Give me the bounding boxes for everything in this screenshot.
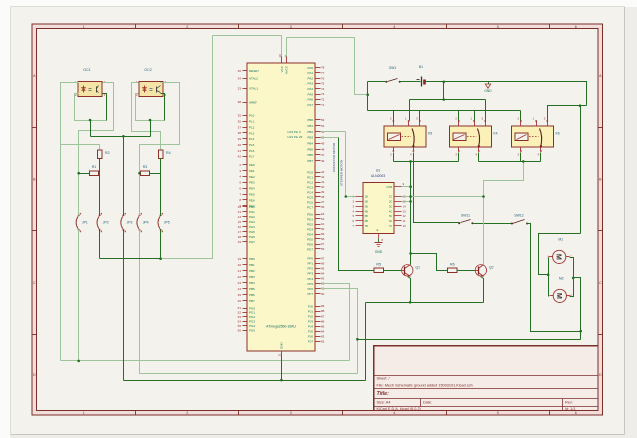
svg-text:XTAL2: XTAL2 xyxy=(249,77,258,81)
svg-text:PG3: PG3 xyxy=(249,320,255,324)
wire ULN outputs xyxy=(402,196,484,198)
svg-text:PL3: PL3 xyxy=(249,131,255,135)
svg-text:55: 55 xyxy=(238,324,242,328)
svg-text:R2: R2 xyxy=(105,151,110,155)
svg-text:22: 22 xyxy=(238,275,242,279)
svg-text:6B: 6B xyxy=(365,219,368,223)
svg-text:PA3: PA3 xyxy=(308,82,314,86)
svg-text:PG4: PG4 xyxy=(249,324,255,328)
svg-text:PC5: PC5 xyxy=(307,195,313,199)
transistor Q1 xyxy=(402,265,421,277)
svg-text:71: 71 xyxy=(321,103,325,107)
svg-text:ULN2003: ULN2003 xyxy=(371,174,385,178)
svg-text:40: 40 xyxy=(238,143,242,147)
IC U2 left pins RESET XTAL AREF xyxy=(238,69,260,105)
svg-text:6: 6 xyxy=(575,411,577,415)
svg-text:25: 25 xyxy=(238,293,242,297)
svg-text:35: 35 xyxy=(238,114,242,118)
wire bus1 bottom xyxy=(61,360,350,362)
wire VCC rail to IC VCC pin xyxy=(213,36,282,57)
IC U1 pins xyxy=(352,182,406,242)
wire JP1 bottom to bus1 xyxy=(78,230,80,361)
svg-text:51: 51 xyxy=(238,306,242,310)
svg-text:41: 41 xyxy=(238,149,242,153)
svg-text:37: 37 xyxy=(238,125,242,129)
svg-text:4C: 4C xyxy=(389,209,392,213)
svg-text:18: 18 xyxy=(238,235,242,239)
wire Q1 collector stub xyxy=(410,254,412,265)
svg-text:PE4: PE4 xyxy=(249,187,255,191)
svg-text:33: 33 xyxy=(238,87,242,91)
svg-text:JP2: JP2 xyxy=(103,221,109,225)
wire bus3 ground xyxy=(124,380,366,382)
svg-text:PC3: PC3 xyxy=(307,185,313,189)
svg-text:7B: 7B xyxy=(365,224,368,228)
svg-text:12: 12 xyxy=(403,214,407,218)
svg-text:LN3 Pin 29: LN3 Pin 29 xyxy=(288,135,303,139)
relay K5 xyxy=(384,117,432,157)
svg-text:R6: R6 xyxy=(450,262,455,266)
svg-text:13: 13 xyxy=(238,210,242,214)
svg-text:PL5: PL5 xyxy=(249,143,255,147)
svg-text:PD3: PD3 xyxy=(307,227,313,231)
svg-text:94: 94 xyxy=(321,272,325,276)
svg-text:13: 13 xyxy=(403,209,407,213)
svg-text:PB3: PB3 xyxy=(307,136,313,140)
svg-text:76: 76 xyxy=(321,76,325,80)
svg-text:3: 3 xyxy=(290,411,292,415)
svg-text:XTAL1: XTAL1 xyxy=(249,87,258,91)
svg-text:52: 52 xyxy=(238,311,242,315)
battery B1 xyxy=(417,65,430,87)
switch JP3 xyxy=(121,213,133,232)
svg-text:COM: COM xyxy=(386,185,392,189)
wire opto center H xyxy=(90,121,92,137)
svg-text:PF5: PF5 xyxy=(307,282,313,286)
resistor R5 xyxy=(374,262,383,272)
svg-text:38: 38 xyxy=(321,195,325,199)
svg-text:PL4: PL4 xyxy=(249,137,255,141)
IC U2 right pin group PB0-PB7 xyxy=(307,118,324,163)
svg-text:10: 10 xyxy=(403,224,407,228)
svg-text:16: 16 xyxy=(238,225,242,229)
svg-text:LN3 Pin 6: LN3 Pin 6 xyxy=(288,130,302,134)
ground below U1 xyxy=(375,239,383,254)
svg-text:49: 49 xyxy=(321,141,325,145)
wire OC1 pin3 xyxy=(103,94,107,121)
svg-text:PH2: PH2 xyxy=(249,215,255,219)
svg-text:62: 62 xyxy=(321,217,325,221)
svg-text:5B: 5B xyxy=(365,214,368,218)
svg-text:PL0: PL0 xyxy=(249,114,255,118)
svg-text:PB7: PB7 xyxy=(307,159,313,163)
wire JP3 bottom to bus3 xyxy=(123,230,125,381)
svg-text:OC1: OC1 xyxy=(83,68,90,72)
IC U2 right pin group PC0-PC7 xyxy=(307,170,325,209)
svg-text:Date:: Date: xyxy=(423,401,432,405)
svg-text:Q1: Q1 xyxy=(416,265,421,269)
svg-text:PE2: PE2 xyxy=(249,175,255,179)
svg-text:7C: 7C xyxy=(389,224,392,228)
svg-text:PB1: PB1 xyxy=(249,263,255,267)
svg-text:PG1: PG1 xyxy=(249,311,255,315)
switch SW12 xyxy=(511,213,528,224)
wire relay1 contact to SW11 xyxy=(414,162,460,223)
IC U2 left pin group PE0-PE7 xyxy=(239,163,255,208)
svg-text:PJ4: PJ4 xyxy=(308,324,314,328)
svg-text:Size: A4: Size: A4 xyxy=(377,401,391,405)
IC U2 ATmega2560 body xyxy=(247,63,315,351)
wire OC2 pin3 xyxy=(161,94,165,121)
svg-text:PF3: PF3 xyxy=(307,272,313,276)
svg-text:PE5: PE5 xyxy=(249,192,255,196)
svg-text:PD2: PD2 xyxy=(307,222,313,226)
svg-text:PH0: PH0 xyxy=(249,205,255,209)
switch SW1 xyxy=(385,66,400,83)
wire SW12 down and across xyxy=(527,224,581,332)
svg-text:53: 53 xyxy=(238,315,242,319)
IC U2 right pin group PD0-PD7 xyxy=(307,212,325,251)
svg-text:39: 39 xyxy=(238,137,242,141)
wire relay coil rail xyxy=(368,110,521,112)
svg-text:PD1: PD1 xyxy=(307,217,313,221)
wire IC GND pin to bus3 xyxy=(281,357,283,381)
wire R1 row xyxy=(79,173,90,175)
svg-text:PJ1: PJ1 xyxy=(308,309,314,313)
svg-text:19: 19 xyxy=(238,257,242,261)
optocoupler OC1 xyxy=(75,68,106,97)
svg-text:B1: B1 xyxy=(419,65,423,69)
svg-text:PH7: PH7 xyxy=(249,240,255,244)
svg-text:PC0: PC0 xyxy=(307,170,313,174)
svg-text:PE1: PE1 xyxy=(249,169,255,173)
svg-text:86: 86 xyxy=(321,319,325,323)
svg-text:PH6: PH6 xyxy=(249,235,255,239)
svg-text:24: 24 xyxy=(238,287,242,291)
wire OC2 pin1 to R4 top xyxy=(132,83,161,150)
svg-text:JP3: JP3 xyxy=(127,221,133,225)
svg-text:U1: U1 xyxy=(376,169,380,173)
wire R2 bottom to JP2 xyxy=(99,159,101,216)
wire motor right loop xyxy=(570,258,574,297)
svg-text:42: 42 xyxy=(238,155,242,159)
svg-text:STEPPER MOTOR: STEPPER MOTOR xyxy=(340,159,344,186)
wire R3 row xyxy=(140,173,141,175)
svg-text:D: D xyxy=(33,373,36,377)
svg-text:60: 60 xyxy=(321,227,325,231)
svg-text:PB0: PB0 xyxy=(249,257,255,261)
resistor R1 xyxy=(89,165,98,175)
switch JP4 xyxy=(137,213,149,232)
svg-text:R5: R5 xyxy=(376,262,381,266)
svg-text:46: 46 xyxy=(321,159,325,163)
svg-text:PB2: PB2 xyxy=(307,130,313,134)
svg-text:SW11: SW11 xyxy=(461,213,470,217)
svg-text:19: 19 xyxy=(238,240,242,244)
svg-text:D: D xyxy=(599,373,602,377)
wire OC1 pin2 loop xyxy=(75,94,107,121)
relay K6 xyxy=(512,117,560,157)
svg-text:PB5: PB5 xyxy=(249,287,255,291)
svg-text:SW12: SW12 xyxy=(514,213,523,217)
wire JP5 bottom to bus VCC xyxy=(160,230,162,259)
IC U2 right pin group PA0-PA7 xyxy=(308,66,325,107)
svg-text:PB2: PB2 xyxy=(249,269,255,273)
svg-text:63: 63 xyxy=(321,212,325,216)
svg-text:52: 52 xyxy=(321,124,325,128)
svg-text:34: 34 xyxy=(238,77,242,81)
svg-text:JP1: JP1 xyxy=(82,221,88,225)
svg-text:PA1: PA1 xyxy=(308,71,314,75)
wire OC1 pin4 down to JP1 column xyxy=(79,83,114,216)
svg-text:61: 61 xyxy=(321,222,325,226)
svg-text:58: 58 xyxy=(321,237,325,241)
svg-text:57: 57 xyxy=(321,242,325,246)
svg-text:82: 82 xyxy=(321,339,325,343)
svg-text:PL2: PL2 xyxy=(249,125,255,129)
svg-text:M1: M1 xyxy=(558,237,563,241)
svg-text:48: 48 xyxy=(321,147,325,151)
resistor R2 xyxy=(97,150,109,159)
svg-text:47: 47 xyxy=(321,153,325,157)
svg-text:PA6: PA6 xyxy=(308,98,314,102)
svg-text:26: 26 xyxy=(238,299,242,303)
svg-text:21: 21 xyxy=(238,269,242,273)
svg-text:PB4: PB4 xyxy=(307,142,313,146)
wire motor bus 339 xyxy=(358,339,581,341)
wire SW11 to SW12 xyxy=(473,223,512,225)
svg-text:M: M xyxy=(554,254,563,260)
svg-text:43: 43 xyxy=(321,170,325,174)
svg-text:CONVEYOR MOTOR: CONVEYOR MOTOR xyxy=(332,142,336,172)
optocoupler OC2 xyxy=(136,68,167,97)
svg-text:PE3: PE3 xyxy=(249,181,255,185)
wire rail to R2 top xyxy=(61,145,100,150)
svg-text:ATmega2560-16AU: ATmega2560-16AU xyxy=(266,325,296,329)
svg-text:PG2: PG2 xyxy=(249,315,255,319)
svg-text:59: 59 xyxy=(321,232,325,236)
svg-text:PL7: PL7 xyxy=(249,155,255,159)
svg-text:C: C xyxy=(33,281,36,285)
svg-text:90: 90 xyxy=(321,292,325,296)
svg-text:K4: K4 xyxy=(493,132,497,136)
svg-text:File: Mech Schematic ground ad: File: Mech Schematic ground added 150931… xyxy=(377,384,473,388)
svg-text:41: 41 xyxy=(321,180,325,184)
svg-text:1: 1 xyxy=(83,411,85,415)
svg-text:83: 83 xyxy=(321,334,325,338)
resistor R4 xyxy=(158,150,170,159)
svg-text:PD7: PD7 xyxy=(307,247,313,251)
wire OC2 pin4 down to JP4 column xyxy=(140,83,180,216)
svg-text:14: 14 xyxy=(238,215,242,219)
svg-text:36: 36 xyxy=(321,205,325,209)
IC U2 top pins VCC AVCC xyxy=(278,54,288,74)
svg-text:PF1: PF1 xyxy=(307,262,313,266)
wire battery minus to 99.5 line xyxy=(443,82,445,100)
svg-text:37: 37 xyxy=(321,200,325,204)
svg-text:PB4: PB4 xyxy=(249,281,255,285)
svg-text:96: 96 xyxy=(321,262,325,266)
svg-text:KiCad E.D.A. kicad (6.0.2): KiCad E.D.A. kicad (6.0.2) xyxy=(377,407,422,411)
transistor Q2 xyxy=(475,265,494,277)
svg-text:R3: R3 xyxy=(143,165,148,169)
svg-text:E: E xyxy=(377,228,379,232)
wire JP3 column xyxy=(123,137,125,216)
svg-text:PJ7: PJ7 xyxy=(308,340,314,344)
svg-text:39: 39 xyxy=(321,190,325,194)
svg-text:11: 11 xyxy=(403,219,406,223)
svg-text:PB6: PB6 xyxy=(249,293,255,297)
svg-text:2: 2 xyxy=(186,25,188,29)
svg-text:4B: 4B xyxy=(365,209,368,213)
svg-text:3B: 3B xyxy=(365,204,368,208)
svg-text:3C: 3C xyxy=(389,204,392,208)
svg-text:53: 53 xyxy=(321,118,325,122)
svg-text:PH1: PH1 xyxy=(249,210,255,214)
switch JP1 xyxy=(76,213,88,232)
svg-text:Q2: Q2 xyxy=(489,265,494,269)
svg-text:PB7: PB7 xyxy=(249,299,255,303)
svg-text:JP5: JP5 xyxy=(164,221,170,225)
wire battery row xyxy=(368,81,387,83)
svg-text:PC7: PC7 xyxy=(307,205,313,209)
svg-text:93: 93 xyxy=(321,277,325,281)
svg-text:M: M xyxy=(555,293,564,299)
svg-text:23: 23 xyxy=(238,281,242,285)
wire bus VCC horizontal xyxy=(100,258,161,260)
svg-text:PF6: PF6 xyxy=(307,287,313,291)
svg-text:PA5: PA5 xyxy=(308,92,314,96)
svg-text:PF2: PF2 xyxy=(307,267,313,271)
svg-text:11: 11 xyxy=(278,353,282,356)
svg-text:K5: K5 xyxy=(428,132,432,136)
svg-text:74: 74 xyxy=(321,87,325,91)
svg-text:12: 12 xyxy=(238,205,242,209)
svg-text:73: 73 xyxy=(321,92,325,96)
svg-text:PG5: PG5 xyxy=(249,328,255,332)
title block xyxy=(374,346,599,411)
svg-text:PJ6: PJ6 xyxy=(308,335,314,339)
svg-text:C: C xyxy=(599,281,602,285)
wire IC PC3 to R5 xyxy=(321,137,339,139)
svg-text:K6: K6 xyxy=(556,132,560,136)
svg-text:98: 98 xyxy=(238,100,242,104)
svg-text:2: 2 xyxy=(186,411,188,415)
svg-text:RESET: RESET xyxy=(249,69,259,73)
svg-text:2C: 2C xyxy=(389,200,392,204)
svg-text:1C: 1C xyxy=(389,195,392,199)
IC U2 right pin group PF0-PF7 xyxy=(307,257,324,296)
wire IC PB2 to ULN pin1 xyxy=(321,131,346,133)
svg-text:PA0: PA0 xyxy=(308,66,314,70)
relay K4 xyxy=(449,117,497,157)
wire relay2 bottom H xyxy=(478,153,480,162)
svg-text:17: 17 xyxy=(238,230,242,234)
svg-text:15: 15 xyxy=(238,220,242,224)
svg-text:AVCC: AVCC xyxy=(284,65,288,74)
svg-text:PJ3: PJ3 xyxy=(308,319,314,323)
svg-text:Title:: Title: xyxy=(377,391,390,397)
svg-text:75: 75 xyxy=(321,82,325,86)
svg-text:PH4: PH4 xyxy=(249,225,255,229)
motor M2 xyxy=(548,276,573,302)
svg-text:SW1: SW1 xyxy=(389,66,396,70)
svg-text:5: 5 xyxy=(497,411,499,415)
svg-text:36: 36 xyxy=(238,119,242,123)
IC U1 ULN2003 body xyxy=(363,169,394,234)
svg-text:6C: 6C xyxy=(389,219,392,223)
svg-text:PH3: PH3 xyxy=(249,220,255,224)
wire JP4 bottom to bus2 xyxy=(139,230,141,374)
svg-text:88: 88 xyxy=(321,309,325,313)
svg-text:56: 56 xyxy=(321,247,325,251)
switch JP5 xyxy=(158,213,170,232)
wire motor left loop xyxy=(539,234,581,275)
wire relay1 to Q1 collector xyxy=(410,162,412,254)
svg-text:PA7: PA7 xyxy=(308,103,314,107)
svg-text:PL1: PL1 xyxy=(249,120,255,124)
svg-text:VCC: VCC xyxy=(280,65,284,72)
svg-text:5C: 5C xyxy=(389,214,392,218)
svg-text:85: 85 xyxy=(321,324,325,328)
wire JP2 bottom to bus VCC xyxy=(99,230,101,259)
switch JP2 xyxy=(97,213,109,232)
svg-text:95: 95 xyxy=(321,267,325,271)
svg-text:30: 30 xyxy=(238,69,242,73)
svg-text:PJ2: PJ2 xyxy=(308,314,314,318)
svg-text:PA4: PA4 xyxy=(308,87,314,91)
svg-text:PJ0: PJ0 xyxy=(308,304,314,308)
IC U2 left pin group PB0-PB7 xyxy=(238,257,255,303)
resistor R6 xyxy=(448,262,457,272)
wire bus2 bottom xyxy=(140,373,358,375)
svg-text:PD4: PD4 xyxy=(307,232,313,236)
svg-text:4: 4 xyxy=(393,25,395,29)
switch SW11 xyxy=(458,213,473,224)
svg-text:PB3: PB3 xyxy=(249,275,255,279)
svg-text:GND: GND xyxy=(375,250,383,254)
wire relay2 net down to Q2 collector xyxy=(484,162,524,265)
svg-text:87: 87 xyxy=(321,314,325,318)
svg-text:JP4: JP4 xyxy=(143,221,149,225)
svg-text:Sheet: /: Sheet: / xyxy=(377,376,391,380)
IC U2 left pin group PG0-PG5 xyxy=(238,306,256,332)
wire relay3 rail down to motors xyxy=(580,106,582,234)
svg-text:4: 4 xyxy=(393,411,395,415)
IC U2 left pin group PL0-PL7 xyxy=(238,114,255,159)
svg-text:PB5: PB5 xyxy=(307,147,313,151)
svg-text:PF4: PF4 xyxy=(307,277,313,281)
svg-text:72: 72 xyxy=(321,98,325,102)
svg-text:2B: 2B xyxy=(365,200,368,204)
IC U2 right pin group PJ0-PJ7 xyxy=(308,304,325,343)
wire emitter bus xyxy=(366,302,484,304)
svg-text:78: 78 xyxy=(321,66,325,70)
svg-text:20: 20 xyxy=(238,263,242,267)
svg-text:GND: GND xyxy=(280,342,284,350)
svg-text:PF7: PF7 xyxy=(307,292,313,296)
wire OC2 pin2 loop xyxy=(136,94,165,121)
wire R4 bottom to JP5 xyxy=(160,159,162,216)
wire AVCC from IC to SW1 rail xyxy=(287,38,368,95)
svg-text:3: 3 xyxy=(290,25,292,29)
wire OC1 pin1 to left rail down to bus1 xyxy=(61,83,79,361)
svg-text:84: 84 xyxy=(321,329,325,333)
svg-text:PC1: PC1 xyxy=(307,175,313,179)
svg-text:PD6: PD6 xyxy=(307,242,313,246)
svg-text:PE6: PE6 xyxy=(249,198,255,202)
svg-text:1: 1 xyxy=(83,25,85,29)
